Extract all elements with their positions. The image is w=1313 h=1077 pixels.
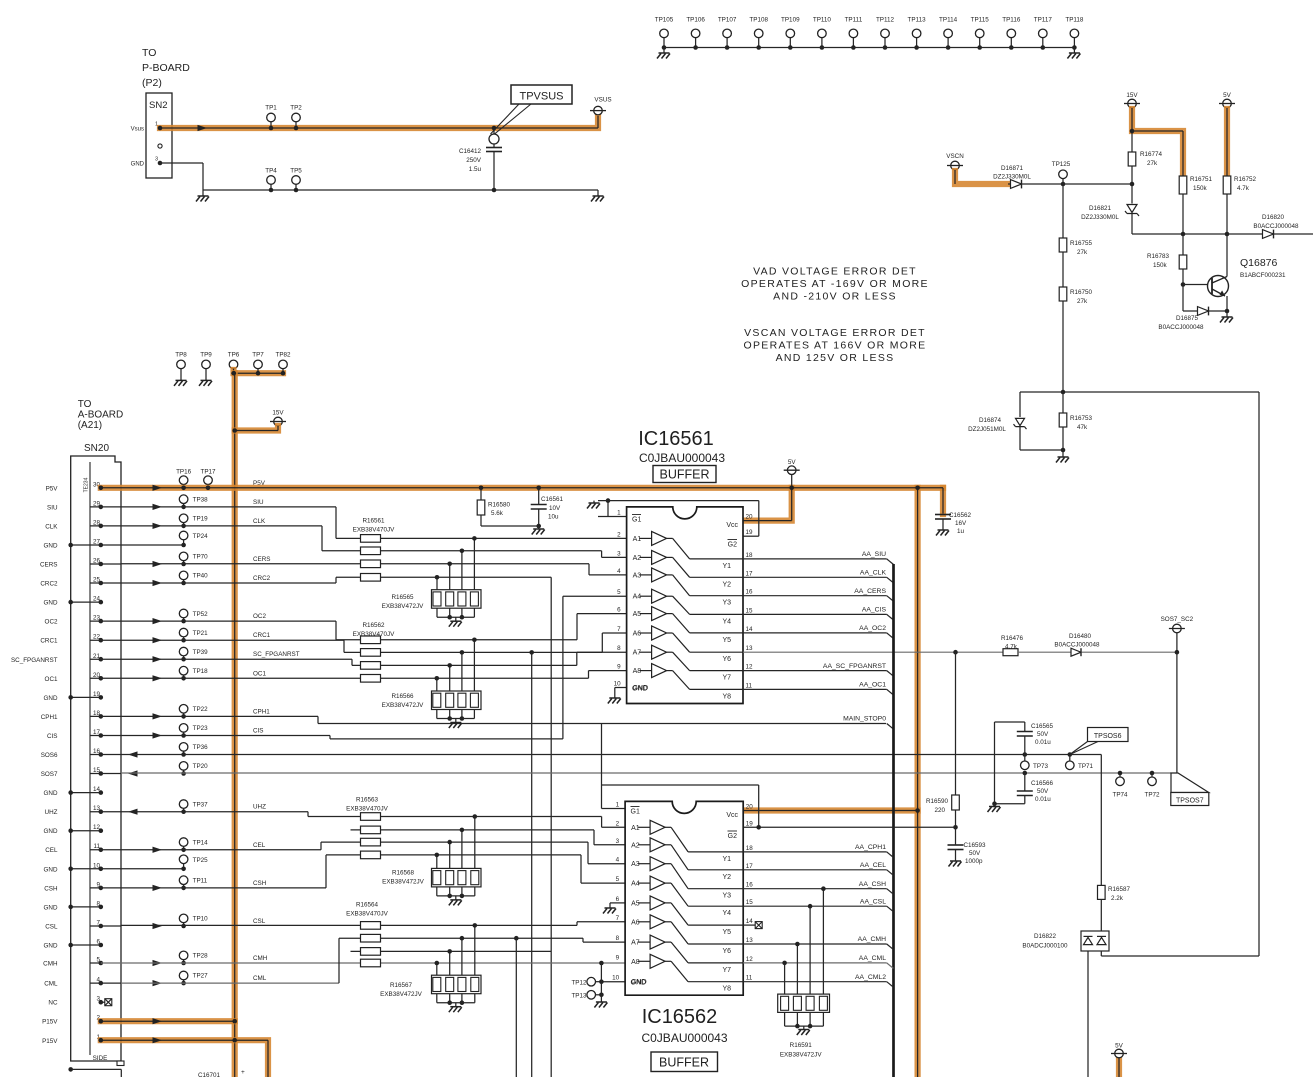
svg-text:TP27: TP27: [193, 973, 209, 980]
svg-text:AA_CMH: AA_CMH: [858, 936, 886, 943]
svg-text:R16568: R16568: [392, 870, 415, 877]
svg-text:Y5: Y5: [722, 637, 731, 644]
svg-text:1.5u: 1.5u: [469, 166, 482, 173]
svg-text:CPH1: CPH1: [253, 708, 270, 715]
svg-text:TP116: TP116: [1002, 17, 1021, 24]
svg-text:Y5: Y5: [722, 929, 731, 936]
svg-text:R16774: R16774: [1140, 151, 1163, 158]
svg-text:G2: G2: [728, 833, 737, 840]
svg-text:AND -210V OR LESS: AND -210V OR LESS: [773, 291, 897, 303]
svg-text:TP52: TP52: [193, 611, 209, 618]
svg-text:TP23: TP23: [193, 725, 209, 732]
svg-text:OC2: OC2: [253, 613, 266, 620]
svg-text:OC1: OC1: [253, 670, 266, 677]
svg-text:GND: GND: [44, 866, 58, 873]
svg-text:12: 12: [746, 956, 754, 963]
svg-text:R16567: R16567: [390, 982, 413, 989]
svg-text:OC1: OC1: [45, 676, 58, 683]
svg-text:TP125: TP125: [1052, 161, 1071, 168]
svg-text:TP109: TP109: [781, 17, 800, 24]
svg-text:3: 3: [155, 157, 158, 163]
svg-text:1000p: 1000p: [965, 858, 983, 865]
svg-text:0.01u: 0.01u: [1035, 739, 1051, 746]
svg-text:AA_SC_FPGANRST: AA_SC_FPGANRST: [823, 663, 886, 670]
svg-text:8: 8: [617, 645, 621, 652]
svg-text:TP36: TP36: [193, 744, 209, 751]
svg-text:TPSOS7: TPSOS7: [1176, 798, 1204, 805]
svg-text:AA_CERS: AA_CERS: [854, 588, 886, 595]
svg-text:SOS6: SOS6: [41, 752, 58, 759]
svg-text:GND: GND: [632, 686, 648, 693]
svg-text:AND 125V OR LESS: AND 125V OR LESS: [776, 352, 895, 364]
svg-text:R16587: R16587: [1108, 886, 1131, 893]
svg-text:10: 10: [612, 975, 620, 982]
svg-text:TE234: TE234: [83, 477, 89, 492]
svg-text:5V: 5V: [1115, 1043, 1124, 1050]
svg-text:R16783: R16783: [1147, 253, 1170, 260]
svg-text:A3: A3: [633, 572, 642, 579]
svg-text:AA_OC1: AA_OC1: [859, 682, 886, 689]
svg-text:TP107: TP107: [718, 17, 737, 24]
svg-text:13: 13: [746, 645, 754, 652]
svg-text:AA_CSH: AA_CSH: [859, 881, 886, 888]
svg-text:Y6: Y6: [722, 656, 731, 663]
svg-text:R16561: R16561: [362, 518, 385, 525]
svg-text:GND: GND: [44, 543, 58, 550]
svg-text:SIU: SIU: [253, 499, 264, 506]
svg-text:SIU: SIU: [47, 504, 58, 511]
svg-text:A1: A1: [633, 536, 642, 543]
svg-text:SC_FPGANRST: SC_FPGANRST: [11, 657, 58, 664]
svg-text:14: 14: [746, 918, 754, 925]
svg-text:CEL: CEL: [253, 842, 266, 849]
svg-text:VSCAN VOLTAGE ERROR DET: VSCAN VOLTAGE ERROR DET: [744, 327, 926, 339]
svg-text:CRC2: CRC2: [40, 581, 58, 588]
svg-text:TP21: TP21: [193, 630, 209, 637]
svg-text:UHZ: UHZ: [45, 809, 58, 816]
svg-text:A3: A3: [631, 861, 640, 868]
svg-text:2: 2: [616, 820, 620, 827]
svg-text:G1: G1: [632, 517, 641, 524]
svg-text:15V: 15V: [272, 410, 284, 417]
svg-text:C16701: C16701: [198, 1072, 221, 1077]
svg-text:B0ACCJ000048: B0ACCJ000048: [1054, 642, 1100, 649]
svg-text:16V: 16V: [955, 520, 967, 527]
svg-text:A4: A4: [631, 881, 640, 888]
svg-text:TP82: TP82: [275, 352, 291, 359]
svg-text:EXB38V472JV: EXB38V472JV: [382, 702, 424, 709]
svg-text:GND: GND: [44, 695, 58, 702]
svg-text:R16565: R16565: [391, 594, 414, 601]
svg-text:7: 7: [616, 915, 620, 922]
svg-text:EXB38V470JV: EXB38V470JV: [353, 527, 395, 534]
svg-text:Y6: Y6: [722, 948, 731, 955]
svg-text:TP4: TP4: [265, 168, 277, 175]
svg-text:150k: 150k: [1153, 262, 1168, 269]
svg-text:17: 17: [746, 863, 754, 870]
svg-text:TP20: TP20: [193, 763, 209, 770]
svg-text:TP112: TP112: [876, 17, 895, 24]
svg-text:TP28: TP28: [193, 953, 209, 960]
svg-text:D16820: D16820: [1262, 214, 1285, 221]
svg-text:1: 1: [617, 510, 621, 517]
svg-text:R16564: R16564: [356, 902, 379, 909]
svg-text:R16562: R16562: [362, 622, 385, 629]
svg-text:Y1: Y1: [722, 563, 731, 570]
svg-text:50V: 50V: [969, 850, 981, 857]
svg-text:D16480: D16480: [1069, 633, 1092, 640]
svg-text:TP38: TP38: [193, 496, 209, 503]
svg-text:TP13: TP13: [571, 993, 587, 1000]
svg-text:CLK: CLK: [253, 518, 266, 525]
svg-text:AA_CPH1: AA_CPH1: [855, 844, 886, 851]
svg-text:CSH: CSH: [253, 880, 267, 887]
svg-text:CIS: CIS: [253, 728, 264, 735]
svg-text:EXB38V472JV: EXB38V472JV: [380, 991, 422, 998]
svg-text:5.6k: 5.6k: [491, 510, 504, 517]
svg-text:NC: NC: [48, 1000, 58, 1007]
svg-text:Y3: Y3: [722, 600, 731, 607]
svg-text:G2: G2: [728, 542, 737, 549]
svg-text:EXB38V472JV: EXB38V472JV: [780, 1052, 822, 1059]
svg-text:TP7: TP7: [252, 352, 264, 359]
svg-text:IC16562: IC16562: [642, 1006, 718, 1028]
svg-text:Y4: Y4: [722, 618, 731, 625]
svg-text:G1: G1: [631, 809, 640, 816]
svg-text:R16750: R16750: [1070, 289, 1093, 296]
svg-text:Y7: Y7: [722, 675, 731, 682]
svg-text:1: 1: [616, 802, 620, 809]
svg-text:SOS7: SOS7: [41, 771, 58, 778]
svg-text:VSCN: VSCN: [946, 153, 964, 160]
svg-text:SIDE: SIDE: [93, 1055, 108, 1062]
svg-text:10V: 10V: [549, 505, 561, 512]
svg-text:A1: A1: [631, 825, 640, 832]
svg-text:OPERATES AT 166V OR MORE: OPERATES AT 166V OR MORE: [744, 340, 927, 352]
svg-text:TP19: TP19: [193, 516, 209, 523]
svg-text:CML: CML: [253, 975, 267, 982]
svg-text:Vcc: Vcc: [726, 522, 738, 529]
svg-text:CRC1: CRC1: [40, 638, 58, 645]
svg-text:20: 20: [746, 514, 754, 521]
svg-text:TP40: TP40: [193, 573, 209, 580]
svg-text:Y8: Y8: [722, 986, 731, 993]
svg-text:CSH: CSH: [44, 885, 58, 892]
svg-text:TP39: TP39: [193, 649, 209, 656]
svg-text:Y7: Y7: [722, 967, 731, 974]
svg-text:EXB38V470JV: EXB38V470JV: [346, 806, 388, 813]
svg-text:A5: A5: [631, 900, 640, 907]
svg-text:TP111: TP111: [845, 17, 863, 24]
svg-text:TO: TO: [142, 47, 156, 59]
svg-text:10: 10: [614, 681, 622, 688]
svg-text:B1ABCF000231: B1ABCF000231: [1240, 272, 1286, 279]
svg-text:EXB38V472JV: EXB38V472JV: [382, 879, 424, 886]
svg-text:TP105: TP105: [655, 17, 674, 24]
svg-text:Q16876: Q16876: [1240, 257, 1278, 269]
svg-text:TP9: TP9: [200, 352, 212, 359]
svg-text:CERS: CERS: [40, 562, 58, 569]
svg-text:18: 18: [746, 552, 754, 559]
svg-text:OC2: OC2: [45, 619, 58, 626]
svg-text:15: 15: [746, 899, 754, 906]
svg-text:TP25: TP25: [193, 857, 209, 864]
svg-text:C16566: C16566: [1031, 780, 1054, 787]
svg-text:2: 2: [617, 531, 621, 538]
svg-text:P15V: P15V: [42, 1019, 58, 1026]
svg-text:Y4: Y4: [722, 910, 731, 917]
svg-text:TP118: TP118: [1065, 17, 1084, 24]
svg-text:DZ2J330M0L: DZ2J330M0L: [1081, 214, 1119, 221]
svg-text:C16412: C16412: [459, 148, 482, 155]
svg-text:D16871: D16871: [1001, 165, 1024, 172]
svg-text:5: 5: [617, 589, 621, 596]
svg-text:4.7k: 4.7k: [1005, 643, 1018, 650]
svg-text:Y8: Y8: [722, 693, 731, 700]
svg-text:TP2: TP2: [290, 105, 302, 112]
svg-text:BUFFER: BUFFER: [660, 468, 710, 482]
svg-text:1u: 1u: [957, 528, 965, 535]
svg-text:19: 19: [746, 820, 754, 827]
svg-text:EXB38V470JV: EXB38V470JV: [346, 911, 388, 918]
svg-text:18: 18: [746, 845, 754, 852]
svg-text:GND: GND: [44, 904, 58, 911]
svg-text:R16580: R16580: [488, 502, 511, 509]
svg-text:19: 19: [746, 529, 754, 536]
svg-text:27k: 27k: [1077, 249, 1088, 256]
svg-text:TP115: TP115: [971, 17, 990, 24]
svg-text:TP70: TP70: [193, 554, 209, 561]
svg-text:DZ2J051M0L: DZ2J051M0L: [968, 426, 1006, 433]
svg-text:TP114: TP114: [939, 17, 958, 24]
svg-text:3: 3: [616, 838, 620, 845]
svg-text:Vcc: Vcc: [726, 812, 738, 819]
svg-text:0.01u: 0.01u: [1035, 796, 1051, 803]
svg-text:R16476: R16476: [1001, 635, 1024, 642]
svg-text:CSL: CSL: [253, 918, 266, 925]
svg-text:4.7k: 4.7k: [1237, 185, 1250, 192]
svg-text:15V: 15V: [1126, 92, 1138, 99]
svg-text:AA_CEL: AA_CEL: [860, 862, 886, 869]
svg-text:6: 6: [617, 607, 621, 614]
svg-text:5V: 5V: [788, 459, 797, 466]
svg-text:5V: 5V: [1223, 92, 1232, 99]
svg-text:AA_CML: AA_CML: [859, 955, 886, 962]
svg-text:TP37: TP37: [193, 801, 209, 808]
svg-text:8: 8: [616, 935, 620, 942]
svg-text:GND: GND: [44, 600, 58, 607]
svg-text:D16822: D16822: [1034, 933, 1057, 940]
svg-text:16: 16: [746, 589, 754, 596]
svg-text:A7: A7: [633, 650, 642, 657]
svg-text:2.2k: 2.2k: [1111, 895, 1124, 902]
svg-text:CERS: CERS: [253, 556, 271, 563]
svg-text:CPH1: CPH1: [41, 714, 58, 721]
svg-text:P5V: P5V: [46, 485, 59, 492]
svg-text:A7: A7: [631, 940, 640, 947]
svg-text:TP12: TP12: [571, 980, 587, 987]
svg-text:IC16561: IC16561: [638, 428, 714, 450]
svg-text:TP8: TP8: [175, 352, 187, 359]
svg-text:AA_CLK: AA_CLK: [860, 570, 887, 577]
svg-text:3: 3: [617, 550, 621, 557]
svg-text:TPSOS6: TPSOS6: [1094, 733, 1122, 740]
svg-text:A-BOARD: A-BOARD: [78, 410, 124, 421]
svg-text:VAD VOLTAGE ERROR DET: VAD VOLTAGE ERROR DET: [753, 266, 917, 278]
svg-text:C16562: C16562: [949, 512, 972, 519]
svg-text:TP110: TP110: [813, 17, 832, 24]
svg-text:TP106: TP106: [686, 17, 705, 24]
svg-text:SN2: SN2: [149, 100, 167, 111]
svg-text:R16566: R16566: [391, 693, 414, 700]
svg-text:TP22: TP22: [193, 706, 209, 713]
svg-text:P-BOARD: P-BOARD: [142, 62, 190, 74]
svg-text:27k: 27k: [1077, 298, 1088, 305]
svg-text:AA_OC2: AA_OC2: [859, 625, 886, 632]
svg-text:R16752: R16752: [1234, 176, 1257, 183]
svg-text:14: 14: [746, 626, 754, 633]
svg-text:9: 9: [616, 954, 620, 961]
svg-text:CIS: CIS: [47, 733, 58, 740]
svg-text:OPERATES AT -169V OR MORE: OPERATES AT -169V OR MORE: [741, 278, 929, 290]
svg-text:27k: 27k: [1147, 160, 1158, 167]
svg-text:VSUS: VSUS: [594, 97, 611, 104]
svg-text:6: 6: [616, 896, 620, 903]
svg-text:CMH: CMH: [43, 961, 58, 968]
svg-text:TO: TO: [78, 399, 92, 410]
svg-text:A4: A4: [633, 594, 642, 601]
svg-text:B0ACCJ000048: B0ACCJ000048: [1158, 324, 1204, 331]
svg-text:R16591: R16591: [790, 1042, 813, 1049]
svg-text:4: 4: [616, 857, 620, 864]
svg-text:C16561: C16561: [541, 496, 564, 503]
svg-text:DZ2J330M0L: DZ2J330M0L: [993, 174, 1031, 181]
svg-text:AA_CSL: AA_CSL: [860, 898, 886, 905]
svg-text:EXB38V472JV: EXB38V472JV: [382, 603, 424, 610]
svg-text:GND: GND: [631, 980, 647, 987]
svg-text:A8: A8: [633, 668, 642, 675]
svg-text:C16565: C16565: [1031, 723, 1054, 730]
svg-text:TPVSUS: TPVSUS: [519, 91, 563, 103]
svg-text:16: 16: [746, 882, 754, 889]
svg-text:R16751: R16751: [1190, 176, 1213, 183]
svg-text:150k: 150k: [1193, 185, 1208, 192]
svg-text:TP71: TP71: [1078, 763, 1094, 770]
svg-text:D16821: D16821: [1089, 205, 1112, 212]
svg-text:4: 4: [617, 568, 621, 575]
svg-text:TP74: TP74: [1112, 792, 1128, 799]
svg-text:AA_CML2: AA_CML2: [855, 974, 886, 981]
svg-text:Vsus: Vsus: [131, 127, 144, 133]
svg-text:Y3: Y3: [722, 893, 731, 900]
svg-text:TP73: TP73: [1033, 763, 1049, 770]
svg-text:CEL: CEL: [45, 847, 58, 854]
svg-text:CSL: CSL: [45, 924, 58, 931]
svg-text:A5: A5: [633, 611, 642, 618]
svg-text:GND: GND: [44, 790, 58, 797]
svg-text:(A21): (A21): [78, 420, 102, 431]
svg-text:C0JBAU000043: C0JBAU000043: [639, 451, 725, 465]
svg-text:TP17: TP17: [200, 469, 216, 476]
svg-text:Y2: Y2: [722, 874, 731, 881]
svg-text:P15V: P15V: [42, 1038, 58, 1045]
svg-text:SOS7_SC2: SOS7_SC2: [1161, 616, 1194, 623]
svg-text:TP6: TP6: [228, 352, 240, 359]
svg-text:A6: A6: [633, 631, 642, 638]
svg-text:50V: 50V: [1037, 788, 1049, 795]
svg-text:AA_SIU: AA_SIU: [862, 551, 886, 558]
svg-text:TP10: TP10: [193, 916, 209, 923]
svg-text:B0ADCJ000100: B0ADCJ000100: [1022, 943, 1068, 950]
svg-text:TP72: TP72: [1144, 792, 1160, 799]
svg-text:9: 9: [617, 664, 621, 671]
svg-text:R16753: R16753: [1070, 415, 1093, 422]
svg-text:11: 11: [746, 975, 753, 982]
svg-text:A8: A8: [631, 959, 640, 966]
svg-text:TP108: TP108: [749, 17, 768, 24]
svg-text:47k: 47k: [1077, 424, 1088, 431]
svg-text:A2: A2: [631, 842, 640, 849]
svg-text:15: 15: [746, 607, 754, 614]
svg-text:CLK: CLK: [45, 523, 58, 530]
svg-text:TP14: TP14: [193, 839, 209, 846]
svg-text:220: 220: [934, 807, 945, 814]
svg-text:CRC2: CRC2: [253, 575, 271, 582]
svg-text:Y2: Y2: [722, 581, 731, 588]
svg-text:GND: GND: [131, 162, 145, 168]
svg-text:5: 5: [616, 876, 620, 883]
svg-text:TP5: TP5: [290, 168, 302, 175]
svg-text:A6: A6: [631, 919, 640, 926]
svg-text:TP24: TP24: [193, 533, 209, 540]
svg-text:B0ACCJ000048: B0ACCJ000048: [1253, 223, 1299, 230]
svg-text:TP113: TP113: [908, 17, 927, 24]
svg-text:11: 11: [746, 682, 753, 689]
svg-text:CML: CML: [44, 981, 58, 988]
svg-text:D16875: D16875: [1176, 315, 1199, 322]
svg-text:D16874: D16874: [979, 417, 1002, 424]
svg-text:MAIN_STOP0: MAIN_STOP0: [843, 716, 886, 723]
svg-text:R16590: R16590: [926, 798, 949, 805]
svg-text:Y1: Y1: [722, 856, 731, 863]
svg-text:12: 12: [746, 664, 754, 671]
svg-text:AA_CIS: AA_CIS: [862, 607, 887, 614]
svg-text:SN20: SN20: [84, 443, 109, 454]
svg-text:GND: GND: [44, 943, 58, 950]
svg-text:SC_FPGANRST: SC_FPGANRST: [253, 651, 300, 658]
svg-text:C16593: C16593: [964, 842, 987, 849]
svg-text:+: +: [241, 1069, 245, 1076]
svg-text:EXB38V470JV: EXB38V470JV: [353, 631, 395, 638]
svg-text:17: 17: [746, 570, 754, 577]
svg-text:GND: GND: [44, 828, 58, 835]
svg-text:TP18: TP18: [193, 668, 209, 675]
svg-text:13: 13: [746, 937, 754, 944]
svg-text:TP11: TP11: [193, 878, 208, 885]
svg-text:50V: 50V: [1037, 731, 1049, 738]
svg-text:CMH: CMH: [253, 955, 268, 962]
svg-text:TP16: TP16: [176, 469, 192, 476]
svg-text:7: 7: [617, 626, 621, 633]
svg-text:R16563: R16563: [356, 797, 379, 804]
svg-text:BUFFER: BUFFER: [659, 1056, 709, 1070]
svg-text:R16755: R16755: [1070, 240, 1093, 247]
svg-text:A2: A2: [633, 555, 642, 562]
svg-text:250V: 250V: [466, 157, 482, 164]
svg-text:(P2): (P2): [142, 77, 162, 89]
svg-text:20: 20: [746, 804, 754, 811]
svg-text:UHZ: UHZ: [253, 804, 266, 811]
